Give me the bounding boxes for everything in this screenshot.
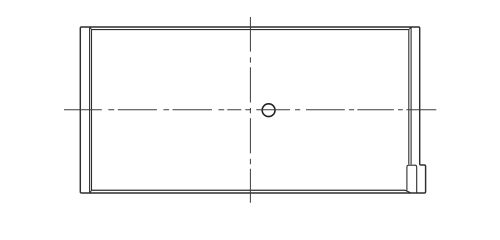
right parting-strip edge line (interrupted by lug) — [410, 27, 412, 164]
vertical centerline (dash-dot) — [249, 17, 251, 203]
inner chamfer line: right edge (interrupted by lug) — [408, 30, 410, 165]
locating lug inner pressed rectangle — [407, 165, 417, 192]
corner chamfer bottom-left — [90, 190, 92, 193]
oil hole circle — [262, 104, 275, 117]
bearing outer profile with locating lug protrusion — [80, 27, 425, 193]
horizontal centerline (dash-dot) — [64, 109, 436, 111]
inner chamfer line: left edge — [91, 30, 93, 190]
corner chamfer top-right — [409, 27, 411, 29]
lug bottom diagonal chamfer — [405, 190, 411, 193]
left parting-strip edge line — [89, 27, 91, 193]
corner chamfer top-left — [90, 27, 92, 29]
inner chamfer line: top edge — [92, 29, 409, 31]
inner chamfer line: bottom edge — [92, 189, 406, 191]
